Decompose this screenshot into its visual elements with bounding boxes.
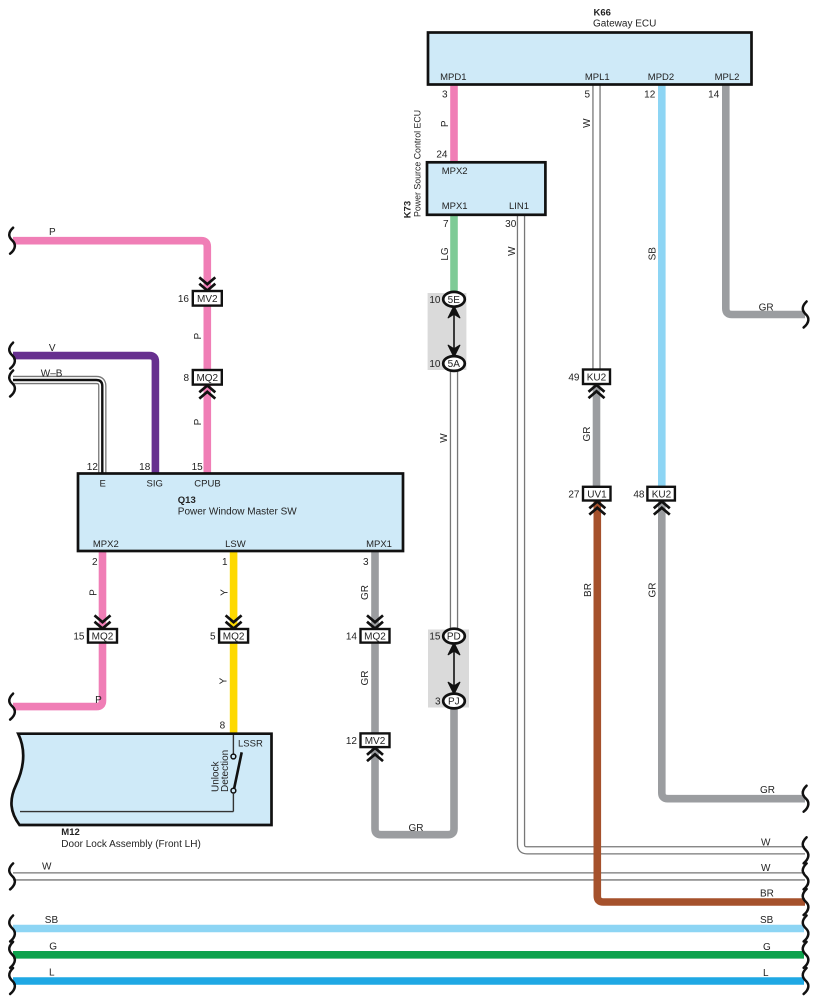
svg-text:MQ2: MQ2 (364, 631, 386, 642)
svg-text:Gateway ECU: Gateway ECU (593, 18, 656, 29)
assembly M12 Door Lock Assembly (Front LH) box (11, 720, 271, 850)
break symbol W-B left (9, 371, 15, 397)
svg-text:Power Window Master SW: Power Window Master SW (178, 507, 297, 518)
svg-text:W: W (439, 433, 450, 443)
wire G bus horizontal (13, 951, 804, 959)
svg-text:BR: BR (760, 889, 774, 900)
break symbol W left (9, 863, 15, 889)
svg-text:48: 48 (633, 489, 645, 500)
svg-text:SB: SB (760, 915, 774, 926)
connector 49 KU2 (568, 370, 610, 399)
connector 27 UV1 (568, 487, 610, 515)
svg-text:GR: GR (409, 823, 424, 834)
svg-text:GR: GR (582, 427, 593, 442)
wire Y from Q13 LSW pin 1 to M12 LSSR pin 8 (230, 551, 238, 735)
svg-text:P: P (89, 589, 100, 596)
svg-text:P: P (95, 695, 102, 706)
break symbol SB left (9, 916, 15, 942)
svg-text:3: 3 (363, 557, 369, 568)
svg-text:MV2: MV2 (365, 736, 386, 747)
wire W-B from break to Q13 E pin 12 (13, 380, 102, 474)
svg-text:10: 10 (429, 359, 441, 370)
svg-text:E: E (100, 479, 106, 490)
wire GR from K66 MPL2 pin 14 to right edge (726, 84, 805, 315)
wire W from connector 5A to connector 15 PD (450, 370, 458, 631)
svg-text:MPX2: MPX2 (442, 166, 468, 177)
svg-text:W: W (507, 246, 518, 256)
svg-text:CPUB: CPUB (194, 479, 220, 490)
svg-text:Door Lock Assembly (Front LH): Door Lock Assembly (Front LH) (61, 839, 201, 850)
svg-text:PJ: PJ (448, 697, 460, 708)
wire W from K73 LIN1 pin 30 to right edge (521, 215, 805, 850)
svg-text:8: 8 (183, 373, 189, 384)
svg-text:W: W (42, 862, 52, 873)
wire L bus horizontal (13, 977, 804, 985)
svg-text:16: 16 (178, 294, 190, 305)
svg-text:MQ2: MQ2 (92, 631, 114, 642)
svg-text:BR: BR (583, 583, 594, 597)
break symbol L left (9, 968, 15, 994)
svg-text:MPL1: MPL1 (585, 72, 610, 83)
svg-text:P: P (49, 227, 56, 238)
break symbol BR right (803, 889, 809, 915)
svg-text:Power Source Control ECU: Power Source Control ECU (412, 110, 422, 217)
wire P from K66 MPD1 pin 3 to K73 MPX2 pin 24 (450, 84, 458, 163)
svg-text:PD: PD (447, 632, 461, 643)
svg-text:G: G (763, 942, 771, 953)
break symbol V left (9, 343, 15, 369)
svg-text:L: L (49, 968, 55, 979)
break symbol G right (803, 942, 809, 968)
svg-text:3: 3 (435, 697, 441, 708)
connector block 5E/5A (428, 292, 467, 371)
svg-text:SB: SB (648, 247, 659, 261)
connector 14 MQ2 (346, 615, 390, 642)
break symbol P upper-left (9, 228, 15, 254)
svg-text:24: 24 (436, 150, 448, 161)
wire SB bus horizontal (13, 925, 804, 933)
wire BR from 27 UV1 to right edge (597, 500, 805, 902)
wire GR from 49 KU2 to 27 UV1 (593, 384, 601, 488)
svg-text:14: 14 (346, 631, 358, 642)
svg-text:Detection: Detection (220, 750, 231, 792)
svg-text:Q13: Q13 (178, 495, 196, 506)
svg-text:MPX1: MPX1 (442, 201, 468, 212)
svg-text:W: W (582, 118, 593, 128)
connector 12 MV2 (346, 733, 390, 761)
wire P upper-left from break to Q13 CPUB pin 15 (13, 241, 207, 474)
svg-text:KU2: KU2 (587, 373, 607, 384)
connector block PD/PJ (428, 629, 469, 709)
wire W full-width horizontal (13, 872, 805, 880)
switch Q13 Power Window Master SW box (78, 462, 403, 568)
svg-text:MPX2: MPX2 (93, 539, 119, 550)
svg-text:30: 30 (505, 219, 517, 230)
svg-text:MPD1: MPD1 (440, 72, 466, 83)
connector 15 MQ2 (73, 615, 117, 642)
svg-text:5E: 5E (448, 295, 461, 306)
svg-text:GR: GR (360, 585, 371, 600)
svg-text:LSSR: LSSR (238, 739, 263, 750)
svg-text:P: P (193, 333, 204, 340)
ECU K66 Gateway ECU box (428, 7, 752, 100)
svg-text:MV2: MV2 (197, 294, 218, 305)
svg-text:V: V (49, 343, 56, 354)
break symbol GR right (803, 786, 809, 812)
svg-text:1: 1 (222, 557, 228, 568)
svg-text:12: 12 (346, 736, 358, 747)
svg-text:GR: GR (759, 302, 774, 313)
svg-text:MPD2: MPD2 (648, 72, 674, 83)
svg-text:SIG: SIG (147, 479, 163, 490)
wire P from Q13 MPX2 pin 2 to left break (13, 551, 103, 707)
svg-text:5: 5 (210, 631, 216, 642)
svg-text:8: 8 (220, 720, 226, 731)
wire GR from Q13 MPX1 pin 3 through MQ2 and MV2 to connector 3 PJ (375, 551, 454, 835)
ECU K73 Power Source Control ECU box (403, 110, 546, 230)
svg-text:5A: 5A (448, 359, 461, 370)
connector 48 KU2 (633, 487, 675, 515)
svg-text:15: 15 (429, 632, 441, 643)
svg-text:KU2: KU2 (652, 489, 672, 500)
svg-text:7: 7 (443, 219, 449, 230)
break symbol W right lower (803, 863, 809, 889)
connector 16 MV2 (178, 277, 222, 305)
svg-text:SB: SB (45, 915, 59, 926)
wire SB from K66 MPD2 pin 12 to connector 48 KU2 (658, 84, 666, 487)
svg-text:MQ2: MQ2 (223, 631, 245, 642)
svg-text:MPX1: MPX1 (366, 539, 392, 550)
svg-text:3: 3 (442, 90, 448, 101)
svg-text:10: 10 (429, 295, 441, 306)
svg-text:14: 14 (708, 90, 720, 101)
svg-text:5: 5 (584, 90, 590, 101)
svg-text:49: 49 (568, 373, 580, 384)
svg-text:W: W (761, 863, 771, 874)
svg-text:27: 27 (568, 489, 580, 500)
connector 5 MQ2 (210, 615, 248, 642)
svg-text:L: L (763, 968, 769, 979)
wire LG from K73 MPX1 pin 7 to connector 5E (450, 215, 458, 294)
svg-text:15: 15 (192, 462, 204, 473)
break symbol SB right (803, 916, 809, 942)
break symbol W right upper (803, 837, 809, 863)
break symbol L right (803, 968, 809, 994)
svg-text:UV1: UV1 (587, 489, 607, 500)
svg-text:Y: Y (219, 677, 230, 684)
svg-text:K66: K66 (594, 7, 611, 18)
svg-text:MQ2: MQ2 (196, 373, 218, 384)
svg-text:M12: M12 (61, 827, 79, 838)
wire GR from 48 KU2 to right edge (662, 500, 805, 799)
svg-text:GR: GR (360, 671, 371, 686)
svg-text:LSW: LSW (225, 539, 246, 550)
wire W from K66 MPL1 pin 5 to connector 49 KU2 (592, 84, 600, 371)
svg-text:GR: GR (648, 583, 659, 598)
svg-text:12: 12 (87, 462, 99, 473)
svg-text:G: G (49, 941, 57, 952)
svg-text:18: 18 (139, 462, 151, 473)
wire V from break to Q13 SIG pin 18 (13, 356, 155, 474)
svg-text:LIN1: LIN1 (509, 201, 529, 212)
svg-text:P: P (440, 120, 451, 127)
svg-text:P: P (193, 418, 204, 425)
break symbol P lower-left (9, 694, 15, 720)
break symbol G left (9, 942, 15, 968)
break symbol GR upper-right (803, 302, 809, 328)
svg-text:2: 2 (92, 557, 98, 568)
switch Unlock Detection (232, 735, 234, 754)
svg-text:15: 15 (73, 631, 85, 642)
svg-text:W: W (761, 838, 771, 849)
svg-text:LG: LG (440, 247, 451, 261)
svg-text:12: 12 (644, 90, 656, 101)
svg-text:MPL2: MPL2 (715, 72, 740, 83)
svg-text:Y: Y (220, 589, 231, 596)
connector 8 MQ2 (183, 370, 221, 399)
svg-text:W–B: W–B (41, 368, 63, 379)
svg-text:GR: GR (760, 785, 775, 796)
